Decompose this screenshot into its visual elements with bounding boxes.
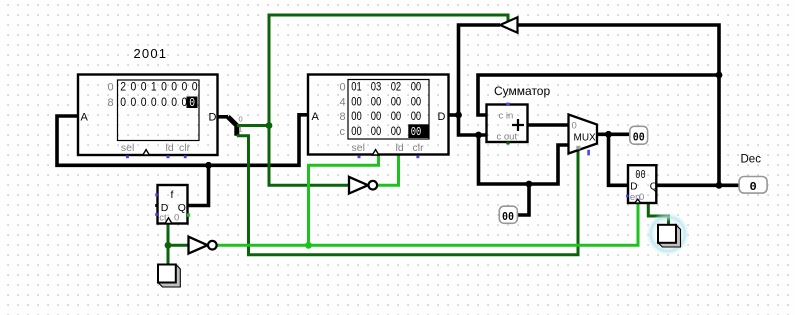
svg-text:2: 2: [120, 80, 126, 94]
svg-text:Q: Q: [650, 181, 658, 192]
svg-text:00: 00: [502, 210, 514, 224]
svg-text:ld: ld: [396, 142, 404, 154]
svg-text:A: A: [81, 112, 89, 124]
svg-text:01: 01: [351, 80, 362, 94]
svg-text:clr: clr: [413, 142, 425, 154]
svg-text:c: c: [340, 126, 346, 138]
svg-text:0: 0: [141, 95, 147, 109]
svg-text:D: D: [438, 111, 446, 123]
svg-text:00: 00: [411, 109, 422, 123]
svg-text:00: 00: [351, 94, 362, 108]
svg-text:00: 00: [351, 124, 362, 138]
svg-text:0: 0: [108, 82, 114, 94]
svg-text:clr: clr: [179, 142, 191, 154]
svg-text:1: 1: [151, 80, 157, 94]
svg-text:0: 0: [340, 82, 346, 94]
svg-text:c out: c out: [497, 131, 518, 142]
svg-text:4: 4: [340, 96, 346, 108]
svg-text:0: 0: [161, 80, 167, 94]
svg-text:sel: sel: [121, 142, 134, 154]
svg-text:00: 00: [371, 124, 382, 138]
svg-text:0: 0: [131, 95, 137, 109]
svg-text:02: 02: [391, 80, 402, 94]
svg-text:f: f: [171, 189, 174, 201]
svg-text:0: 0: [182, 80, 188, 94]
svg-text:0: 0: [239, 115, 243, 124]
svg-text:0: 0: [750, 180, 757, 194]
svg-text:00: 00: [391, 94, 402, 108]
svg-text:1: 1: [239, 125, 243, 134]
svg-text:0: 0: [131, 80, 137, 94]
svg-text:0: 0: [151, 95, 157, 109]
svg-text:0: 0: [171, 80, 177, 94]
svg-text:00: 00: [351, 109, 362, 123]
svg-text:Dec: Dec: [741, 154, 762, 166]
svg-text:00: 00: [371, 94, 382, 108]
svg-text:00: 00: [411, 80, 422, 94]
svg-text:0: 0: [189, 96, 195, 110]
svg-text:sel: sel: [352, 142, 365, 154]
svg-text:0: 0: [171, 95, 177, 109]
svg-text:D: D: [630, 181, 637, 192]
svg-text:0: 0: [572, 121, 577, 132]
svg-text:00: 00: [633, 131, 645, 145]
svg-text:MUX: MUX: [574, 133, 597, 144]
svg-text:D: D: [209, 112, 217, 124]
svg-text:00: 00: [371, 109, 382, 123]
svg-text:00: 00: [411, 125, 422, 139]
svg-text:Сумматор: Сумматор: [494, 84, 550, 98]
svg-text:00: 00: [391, 109, 402, 123]
svg-text:0: 0: [174, 213, 179, 224]
svg-text:c in: c in: [499, 110, 514, 121]
svg-text:00: 00: [391, 124, 402, 138]
svg-text:A: A: [312, 111, 320, 123]
svg-text:00: 00: [635, 169, 645, 182]
svg-text:0: 0: [192, 80, 198, 94]
svg-text:8: 8: [340, 111, 346, 123]
svg-text:2001: 2001: [134, 46, 168, 61]
svg-text:0: 0: [120, 95, 126, 109]
svg-text:ld: ld: [166, 142, 174, 154]
svg-text:00: 00: [411, 94, 422, 108]
svg-text:0: 0: [161, 95, 167, 109]
svg-text:0: 0: [141, 80, 147, 94]
svg-text:8: 8: [108, 97, 114, 109]
svg-text:03: 03: [371, 80, 382, 94]
